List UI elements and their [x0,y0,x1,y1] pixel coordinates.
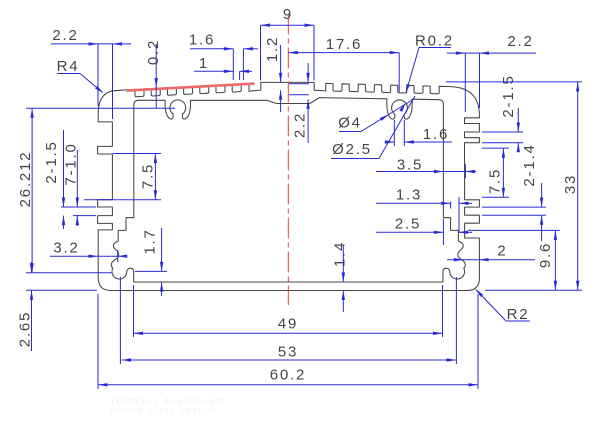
svg-text:2.65: 2.65 [17,311,34,347]
svg-text:7.5: 7.5 [487,168,504,194]
svg-text:1.7: 1.7 [142,228,159,254]
svg-text:2: 2 [497,243,507,260]
svg-text:Ø2.5: Ø2.5 [332,141,372,158]
svg-text:Ø4: Ø4 [338,115,362,132]
svg-text:1.4: 1.4 [332,241,349,267]
svg-text:R4: R4 [57,58,80,75]
svg-text:TOPWELL ALUMINIUM: TOPWELL ALUMINIUM [110,397,225,406]
svg-text:2.2: 2.2 [52,27,78,44]
svg-text:60.2: 60.2 [270,367,306,384]
svg-text:1: 1 [199,55,209,72]
svg-text:2-1.5: 2-1.5 [500,74,517,117]
svg-text:R2: R2 [507,306,530,323]
svg-text:2.5: 2.5 [395,216,421,233]
svg-text:9: 9 [283,6,293,23]
svg-text:0.2: 0.2 [145,39,162,65]
svg-text:1.6: 1.6 [189,32,215,49]
svg-text:1.3: 1.3 [396,187,422,204]
svg-text:2.2: 2.2 [507,33,533,50]
svg-text:R0.2: R0.2 [415,33,454,50]
svg-text:profile cross section: profile cross section [110,406,219,415]
svg-text:53: 53 [278,344,298,361]
svg-text:9.6: 9.6 [537,242,554,268]
svg-text:33: 33 [562,174,579,194]
red draft slope line [127,84,255,91]
svg-text:1.2: 1.2 [264,36,281,62]
svg-text:3.5: 3.5 [397,157,423,174]
svg-text:26.212: 26.212 [17,151,34,208]
svg-text:49: 49 [278,316,298,333]
svg-text:2.2: 2.2 [292,112,309,138]
profile inner contour [111,98,465,282]
profile outer contour [98,82,480,290]
svg-text:2-1.4: 2-1.4 [521,143,538,186]
svg-text:17.6: 17.6 [326,36,362,53]
svg-text:2-1.5: 2-1.5 [43,140,60,183]
svg-text:7.5: 7.5 [140,163,157,189]
svg-text:1.6: 1.6 [423,126,449,143]
svg-text:3.2: 3.2 [53,240,79,257]
red centerline [287,14,289,306]
